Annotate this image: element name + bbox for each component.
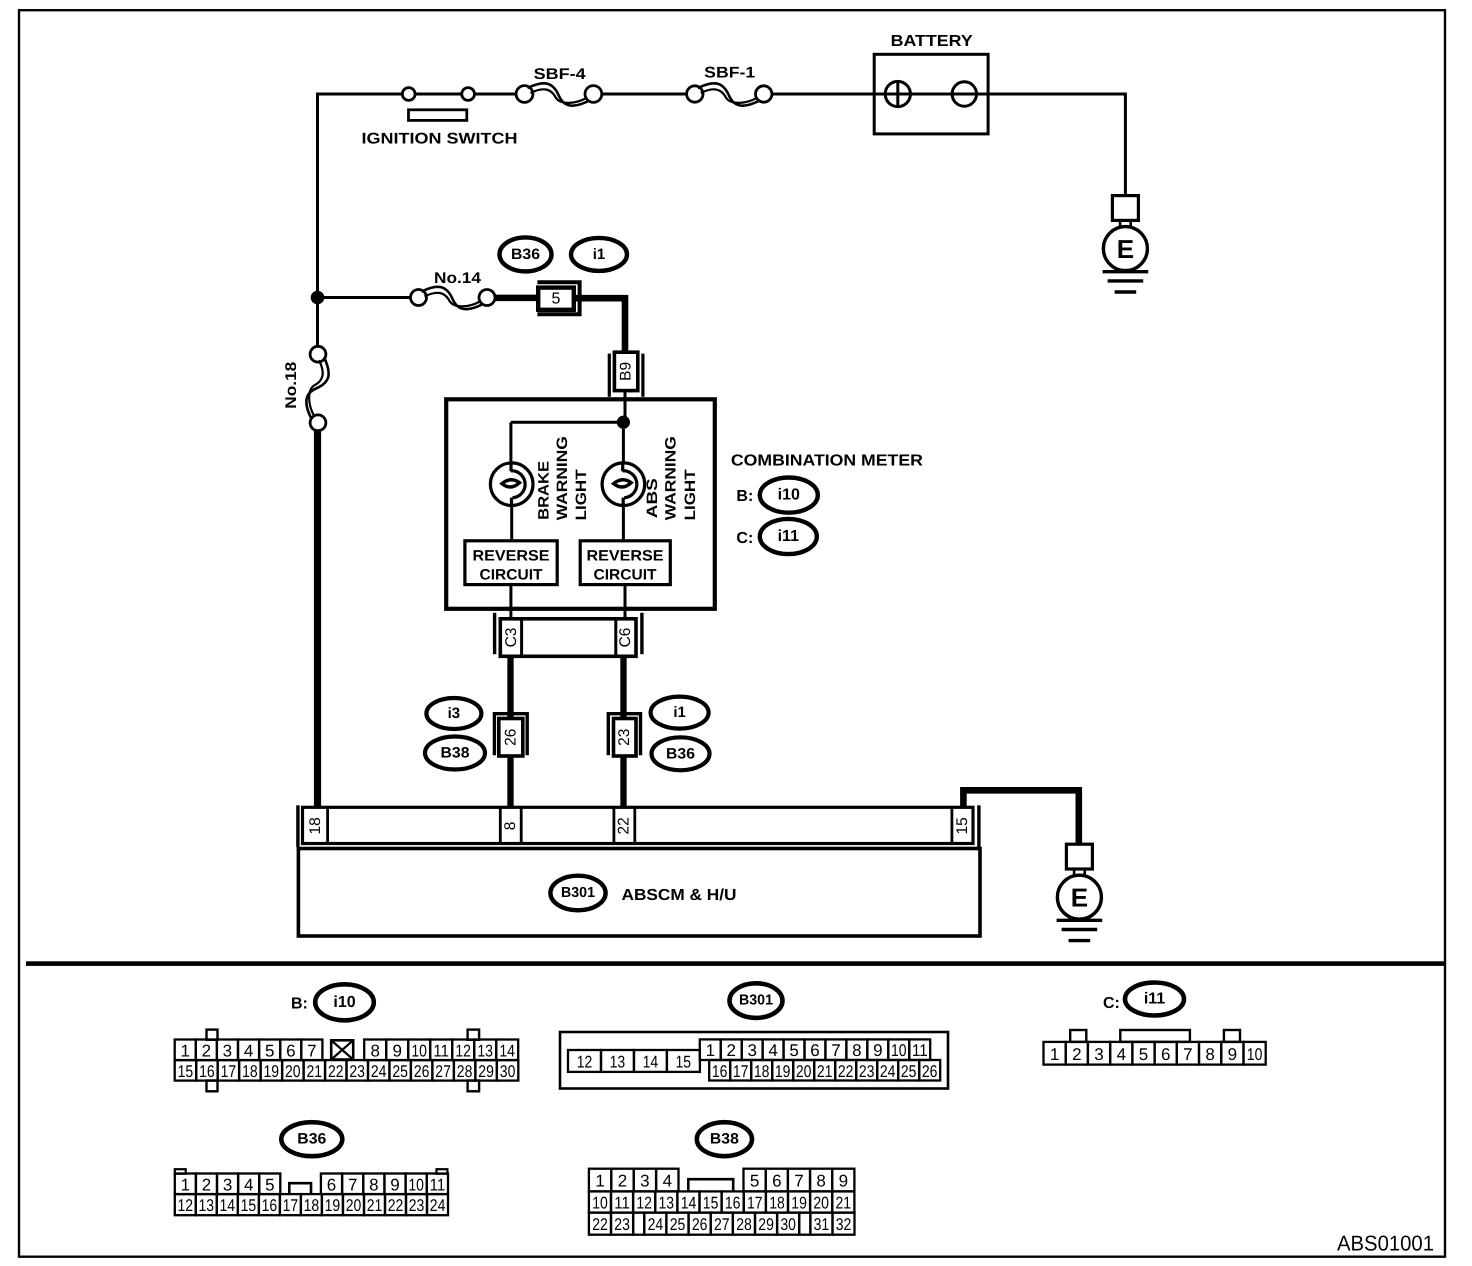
svg-text:9: 9 <box>873 1041 882 1060</box>
svg-text:23: 23 <box>859 1062 875 1081</box>
svg-text:3: 3 <box>640 1172 649 1191</box>
wire SBF-1 to battery <box>772 93 874 96</box>
oval connector ref i11 (bottom) <box>1125 983 1184 1016</box>
connector pin 5 box <box>538 288 574 310</box>
oval connector ref B36 (bottom) <box>281 1122 342 1156</box>
svg-text:9: 9 <box>1228 1045 1237 1064</box>
svg-text:22: 22 <box>592 1215 608 1234</box>
connector i10 top row pins 1-7 <box>175 1040 196 1061</box>
svg-text:23: 23 <box>409 1196 425 1215</box>
svg-text:28: 28 <box>736 1215 752 1234</box>
svg-text:1: 1 <box>181 1175 190 1194</box>
connector i11 row pins 1-10 <box>1044 1042 1066 1065</box>
svg-text:ABSCM & H/U: ABSCM & H/U <box>622 887 737 904</box>
svg-text:23: 23 <box>349 1062 365 1081</box>
svg-text:6: 6 <box>286 1041 295 1060</box>
fuse No.18 <box>310 346 326 362</box>
svg-text:5: 5 <box>789 1041 798 1060</box>
svg-text:12: 12 <box>577 1052 593 1071</box>
pin cell 15 <box>951 807 954 843</box>
svg-text:5: 5 <box>552 290 561 307</box>
svg-text:1: 1 <box>595 1172 604 1191</box>
wire pin 26 to ABSCM pin 8 (thick) <box>507 756 513 809</box>
svg-text:B36: B36 <box>511 246 540 263</box>
svg-text:22: 22 <box>616 817 633 834</box>
svg-text:22: 22 <box>388 1196 404 1215</box>
svg-text:12: 12 <box>455 1041 471 1060</box>
svg-text:25: 25 <box>901 1062 917 1081</box>
connector B36 corner tabs <box>175 1169 186 1174</box>
svg-text:C6: C6 <box>617 628 634 648</box>
wire switch to fuse SBF-4 <box>475 93 517 96</box>
svg-text:CIRCUIT: CIRCUIT <box>594 567 657 584</box>
ground E top right <box>1112 196 1138 221</box>
pin cell 18 <box>326 807 329 843</box>
oval connector ref B38 (mid) <box>425 737 485 770</box>
svg-text:B301: B301 <box>739 993 773 1009</box>
svg-text:26: 26 <box>414 1062 430 1081</box>
svg-text:18: 18 <box>242 1062 258 1081</box>
oval connector ref i1 <box>571 238 627 271</box>
svg-text:4: 4 <box>244 1041 253 1060</box>
svg-text:3: 3 <box>223 1041 232 1060</box>
svg-text:22: 22 <box>838 1062 854 1081</box>
svg-text:2: 2 <box>1072 1045 1081 1064</box>
connector i10 top row pins 8-14 <box>364 1040 386 1061</box>
svg-text:BRAKE: BRAKE <box>535 461 552 520</box>
svg-text:6: 6 <box>772 1172 781 1191</box>
svg-text:i10: i10 <box>778 487 800 504</box>
svg-text:16: 16 <box>199 1062 215 1081</box>
connector B301 top row pins 1-11 <box>700 1039 721 1060</box>
svg-text:C:: C: <box>736 530 753 547</box>
wire pin 23 to ABSCM pin 22 (thick) <box>620 756 626 809</box>
connector B38 top row pins 5-9 <box>744 1169 766 1192</box>
svg-text:14: 14 <box>220 1196 236 1215</box>
svg-text:i10: i10 <box>333 994 355 1011</box>
svg-text:9: 9 <box>839 1172 848 1191</box>
svg-text:17: 17 <box>221 1062 237 1081</box>
svg-text:1: 1 <box>180 1041 189 1060</box>
svg-text:3: 3 <box>1094 1045 1103 1064</box>
pin cell 22 <box>613 807 616 843</box>
meter connector strip box <box>500 619 636 657</box>
svg-text:15: 15 <box>703 1194 719 1213</box>
svg-text:8: 8 <box>370 1041 379 1060</box>
svg-text:16: 16 <box>725 1194 741 1213</box>
svg-text:31: 31 <box>814 1215 830 1234</box>
svg-text:32: 32 <box>836 1215 852 1234</box>
wire to abs warning lamp <box>622 429 625 464</box>
svg-text:REVERSE: REVERSE <box>587 548 664 565</box>
connector i10 bottom row pins 15-30 <box>175 1060 197 1081</box>
svg-text:5: 5 <box>750 1172 759 1191</box>
svg-text:LIGHT: LIGHT <box>573 469 590 520</box>
brake warning lamp <box>490 463 533 506</box>
battery negative terminal <box>952 82 976 106</box>
svg-text:13: 13 <box>199 1196 215 1215</box>
svg-text:5: 5 <box>1139 1045 1148 1064</box>
connector B36 keyway staple <box>289 1183 311 1194</box>
svg-text:7: 7 <box>348 1175 357 1194</box>
svg-text:ABS: ABS <box>644 478 661 518</box>
meter connector strip C3/C6 side brackets <box>493 613 496 654</box>
svg-text:10: 10 <box>891 1041 907 1060</box>
svg-text:20: 20 <box>796 1062 812 1081</box>
pin cell 8 <box>499 807 502 843</box>
svg-text:B301: B301 <box>561 885 595 901</box>
connector B38 middle row pins 10-21 <box>589 1191 611 1212</box>
svg-text:LIGHT: LIGHT <box>682 469 699 520</box>
svg-text:7: 7 <box>794 1172 803 1191</box>
svg-text:C3: C3 <box>503 628 520 648</box>
svg-text:5: 5 <box>265 1041 274 1060</box>
svg-text:14: 14 <box>499 1041 515 1060</box>
svg-text:17: 17 <box>283 1196 299 1215</box>
connector pin 23 bracket <box>608 714 640 756</box>
svg-text:16: 16 <box>712 1062 728 1081</box>
svg-text:13: 13 <box>610 1052 626 1071</box>
connector B36 top row pins 1-5 <box>175 1174 196 1195</box>
ignition switch actuator bar <box>409 110 467 121</box>
svg-text:3: 3 <box>223 1175 232 1194</box>
svg-text:11: 11 <box>614 1194 630 1213</box>
svg-text:25: 25 <box>392 1062 408 1081</box>
svg-text:No.18: No.18 <box>283 361 300 408</box>
svg-text:19: 19 <box>775 1062 791 1081</box>
svg-text:i1: i1 <box>593 246 606 263</box>
svg-text:4: 4 <box>244 1175 253 1194</box>
svg-text:24: 24 <box>880 1062 896 1081</box>
svg-text:B38: B38 <box>441 745 470 762</box>
connector pin 26 bracket <box>494 714 527 756</box>
svg-text:17: 17 <box>733 1062 749 1081</box>
svg-text:20: 20 <box>813 1194 829 1213</box>
svg-text:15: 15 <box>178 1062 194 1081</box>
wire No.14 to connector pin 5 (thick) <box>495 295 537 302</box>
svg-text:23: 23 <box>614 1215 630 1234</box>
junction node inside meter <box>617 416 630 429</box>
connector B9 box <box>614 352 637 390</box>
pin cell C6 <box>614 619 617 657</box>
connector pin 26 box <box>499 719 523 757</box>
svg-text:BATTERY: BATTERY <box>891 33 973 50</box>
svg-text:1: 1 <box>1050 1045 1059 1064</box>
svg-text:26: 26 <box>502 729 519 746</box>
svg-text:8: 8 <box>852 1041 861 1060</box>
svg-text:18: 18 <box>307 817 324 834</box>
wire to brake warning lamp <box>509 422 512 463</box>
connector B9 side brackets <box>608 354 611 397</box>
svg-text:2: 2 <box>202 1175 211 1194</box>
svg-text:No.14: No.14 <box>434 270 481 287</box>
wire through battery <box>874 93 988 96</box>
combination meter box <box>446 399 715 609</box>
ABSCM connector strip box <box>303 807 974 843</box>
svg-text:18: 18 <box>754 1062 770 1081</box>
svg-text:i11: i11 <box>1144 991 1165 1008</box>
svg-text:IGNITION SWITCH: IGNITION SWITCH <box>362 131 518 148</box>
connector pin 5 bracket <box>537 282 579 314</box>
ignition switch SW contacts <box>402 88 415 101</box>
connector pin 23 box <box>614 719 637 757</box>
svg-text:SBF-1: SBF-1 <box>704 64 755 81</box>
svg-text:C:: C: <box>1103 995 1120 1012</box>
svg-text:24: 24 <box>371 1062 387 1081</box>
svg-text:30: 30 <box>500 1062 516 1081</box>
svg-text:29: 29 <box>478 1062 494 1081</box>
wire lamp to reverse circuit (left) <box>510 505 513 542</box>
ABSCM connector strip brackets <box>296 805 299 847</box>
svg-text:ABS01001: ABS01001 <box>1337 1232 1434 1256</box>
svg-text:26: 26 <box>922 1062 938 1081</box>
svg-text:B:: B: <box>291 995 308 1012</box>
connector B38 bottom row pins 22-32 <box>589 1213 611 1235</box>
svg-text:i11: i11 <box>778 528 799 545</box>
svg-text:15: 15 <box>241 1196 257 1215</box>
svg-text:24: 24 <box>648 1215 664 1234</box>
svg-text:25: 25 <box>670 1215 686 1234</box>
wire C6 to pin 23 (thick) <box>620 656 626 719</box>
ABSCM & H/U box <box>298 849 980 937</box>
svg-text:16: 16 <box>262 1196 278 1215</box>
svg-text:WARNING: WARNING <box>554 436 571 520</box>
svg-text:27: 27 <box>435 1062 451 1081</box>
svg-text:9: 9 <box>390 1175 399 1194</box>
connector B36 top row pins 6-11 <box>321 1174 342 1195</box>
wire meter internal horizontal <box>511 421 624 424</box>
svg-text:REVERSE: REVERSE <box>473 548 550 565</box>
reverse circuit box right <box>580 541 670 585</box>
svg-text:23: 23 <box>616 729 633 746</box>
svg-text:7: 7 <box>1183 1045 1192 1064</box>
svg-text:B:: B: <box>736 488 753 505</box>
wire top horizontal to ignition switch <box>316 93 402 96</box>
svg-text:21: 21 <box>307 1062 323 1081</box>
svg-text:8: 8 <box>502 822 519 831</box>
connector B38 top row pins 1-4 <box>589 1169 611 1192</box>
wire battery to ground E (top right) <box>988 94 1125 196</box>
wire SBF-4 to SBF-1 <box>602 93 687 96</box>
svg-text:10: 10 <box>411 1041 427 1060</box>
oval connector ref B301 (bottom) <box>730 983 783 1018</box>
svg-text:15: 15 <box>954 817 971 834</box>
wire C3 to pin 26 (thick) <box>507 656 513 719</box>
wire reverse circuit left to C3 <box>509 585 512 620</box>
svg-text:2: 2 <box>202 1041 211 1060</box>
svg-text:18: 18 <box>304 1196 320 1215</box>
oval connector ref B36 (mid) <box>652 737 710 770</box>
svg-text:21: 21 <box>817 1062 833 1081</box>
wire B9 into meter <box>624 391 627 422</box>
connector i10 mounting tabs <box>207 1030 218 1040</box>
svg-text:18: 18 <box>769 1194 785 1213</box>
svg-text:2: 2 <box>726 1041 735 1060</box>
svg-text:3: 3 <box>747 1041 756 1060</box>
battery positive terminal <box>885 81 910 106</box>
svg-text:10: 10 <box>408 1175 424 1194</box>
svg-text:20: 20 <box>346 1196 362 1215</box>
svg-text:6: 6 <box>810 1041 819 1060</box>
svg-text:11: 11 <box>433 1041 449 1060</box>
oval connector ref i10 (meter) <box>760 478 818 513</box>
svg-text:21: 21 <box>836 1194 852 1213</box>
svg-text:9: 9 <box>392 1041 401 1060</box>
svg-text:12: 12 <box>636 1194 652 1213</box>
svg-text:SBF-4: SBF-4 <box>534 66 586 83</box>
svg-text:26: 26 <box>692 1215 708 1234</box>
wire pin 5 to B9 (thick, corner) <box>576 298 625 352</box>
svg-text:8: 8 <box>369 1175 378 1194</box>
svg-text:13: 13 <box>659 1194 675 1213</box>
reverse circuit box left <box>465 541 557 585</box>
connector B301 outer housing <box>560 1032 948 1089</box>
battery box <box>874 54 988 134</box>
svg-text:2: 2 <box>618 1172 627 1191</box>
oval connector ref i11 (meter) <box>760 519 817 554</box>
svg-text:WARNING: WARNING <box>663 436 680 520</box>
svg-text:E: E <box>1071 883 1088 913</box>
connector B301 large pins 12-15 <box>568 1050 601 1072</box>
svg-text:i1: i1 <box>673 704 686 721</box>
ground E bottom right <box>1066 844 1092 869</box>
svg-text:B36: B36 <box>666 745 695 762</box>
svg-text:29: 29 <box>758 1215 774 1234</box>
svg-text:1: 1 <box>706 1041 715 1060</box>
svg-text:19: 19 <box>791 1194 807 1213</box>
svg-text:11: 11 <box>912 1041 928 1060</box>
svg-text:B38: B38 <box>710 1131 739 1148</box>
svg-text:6: 6 <box>327 1175 336 1194</box>
svg-text:24: 24 <box>430 1196 446 1215</box>
wire lamp to reverse circuit (right) <box>622 505 625 542</box>
svg-text:28: 28 <box>457 1062 473 1081</box>
oval connector ref B301 (ABSCM) <box>550 876 605 911</box>
svg-text:5: 5 <box>265 1175 274 1194</box>
svg-text:4: 4 <box>1117 1045 1126 1064</box>
svg-text:21: 21 <box>367 1196 383 1215</box>
svg-text:20: 20 <box>285 1062 301 1081</box>
svg-text:E: E <box>1117 234 1134 264</box>
oval connector ref i3 <box>426 698 481 729</box>
oval connector ref B36 <box>500 237 552 271</box>
svg-text:19: 19 <box>325 1196 341 1215</box>
wire junction to fuse No.14 <box>318 296 411 299</box>
svg-text:14: 14 <box>681 1194 697 1213</box>
svg-text:14: 14 <box>643 1052 659 1071</box>
svg-text:4: 4 <box>663 1172 672 1191</box>
svg-text:12: 12 <box>178 1196 194 1215</box>
svg-text:15: 15 <box>676 1052 692 1071</box>
oval connector ref i1 (mid) <box>651 697 709 729</box>
svg-text:30: 30 <box>780 1215 796 1234</box>
oval connector ref i10 (bottom) <box>315 984 374 1020</box>
connector i11 tabs <box>1070 1030 1086 1042</box>
svg-text:19: 19 <box>264 1062 280 1081</box>
svg-text:27: 27 <box>714 1215 730 1234</box>
fuse No.14 <box>411 290 427 306</box>
svg-text:10: 10 <box>1247 1045 1263 1064</box>
svg-text:7: 7 <box>307 1041 316 1060</box>
wire reverse circuit right to C6 <box>624 585 627 620</box>
svg-text:11: 11 <box>430 1175 446 1194</box>
pin cell C3 <box>520 619 523 657</box>
svg-text:CIRCUIT: CIRCUIT <box>480 567 543 584</box>
svg-text:17: 17 <box>747 1194 763 1213</box>
svg-text:8: 8 <box>816 1172 825 1191</box>
abs warning lamp <box>602 463 645 506</box>
svg-text:6: 6 <box>1161 1045 1170 1064</box>
wire No.18 to ABSCM pin 18 (thick) <box>314 431 321 809</box>
svg-text:COMBINATION METER: COMBINATION METER <box>731 453 923 470</box>
svg-text:13: 13 <box>477 1041 493 1060</box>
svg-text:7: 7 <box>831 1041 840 1060</box>
wire left rail vertical (ignition feed) <box>316 93 319 347</box>
connector B38 keyway staple <box>688 1179 733 1191</box>
svg-text:8: 8 <box>1205 1045 1214 1064</box>
connector B36 bottom row pins 12-24 <box>175 1194 196 1215</box>
svg-text:4: 4 <box>768 1041 777 1060</box>
svg-text:10: 10 <box>592 1194 608 1213</box>
svg-text:22: 22 <box>328 1062 344 1081</box>
oval connector ref B38 (bottom) <box>697 1122 752 1156</box>
connector i10 keyway cell (X) <box>331 1040 353 1059</box>
fuse SBF-1 <box>687 86 703 102</box>
svg-text:B9: B9 <box>618 362 635 381</box>
svg-text:i3: i3 <box>448 705 461 722</box>
fuse SBF-4 <box>516 86 533 103</box>
wire ABSCM pin 15 to ground (thick) <box>963 790 1078 845</box>
svg-text:B36: B36 <box>297 1131 326 1148</box>
connector B301 bottom row pins 16-26 <box>709 1060 730 1081</box>
junction node (ignition feed split) <box>311 291 325 305</box>
